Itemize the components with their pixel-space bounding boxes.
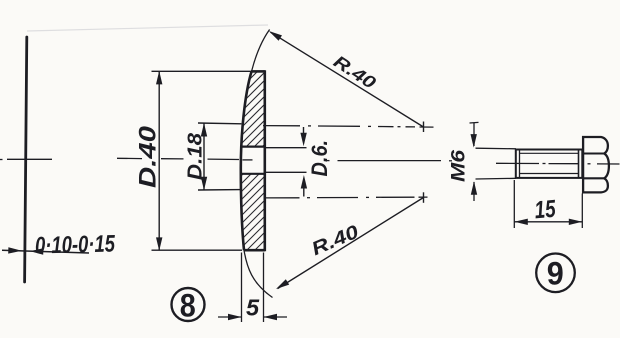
dimension 5: right tail: [264, 316, 288, 318]
bolt part 9: extension line top (M6): [476, 147, 517, 150]
dimension M6: arrow bottom: [471, 181, 477, 195]
part number 9 balloon: [536, 253, 575, 292]
dimension 5: extension line right: [263, 253, 265, 323]
tick at top of M6 stem: [470, 121, 479, 124]
part number 8 balloon: [172, 288, 205, 321]
lower auxiliary centerline: [266, 196, 428, 199]
svg-text:D.6.: D.6.: [307, 140, 332, 177]
R.40 lower arrowhead: [276, 279, 289, 289]
svg-text:9: 9: [547, 255, 564, 291]
dimension D.6: leader line top: [265, 147, 307, 149]
dimension 5: arrow right: [264, 314, 278, 320]
dimension D.18: extension line bottom: [198, 189, 241, 191]
disc part 8: upper hatched section: [241, 72, 265, 147]
hole top edge: [241, 146, 265, 148]
bolt centerline: [496, 162, 620, 165]
dimension D.18: extension line top: [198, 122, 241, 125]
R.40 lower radius line: [278, 198, 424, 289]
faint construction line top: [27, 25, 268, 31]
R.40 upper arrowhead: [269, 31, 282, 41]
dimension 15: extension line right: [581, 194, 583, 229]
thread root line top: [520, 152, 579, 154]
thread end line at head: [578, 150, 580, 178]
dimension D.40: arrow bottom: [156, 237, 162, 251]
bolt hex head outline: [583, 137, 609, 192]
svg-text:15: 15: [533, 196, 557, 225]
svg-text:0·10-0·15: 0·10-0·15: [35, 230, 116, 259]
dimension M6: stem bottom: [473, 182, 475, 201]
dimension D.6: leader line bottom: [265, 171, 307, 173]
disc outline: top edge: [251, 70, 265, 73]
dimension 15: arrow right: [569, 219, 583, 225]
dimension 15: dimension line: [514, 221, 582, 223]
svg-text:D.40: D.40: [135, 126, 162, 188]
dimension M6: stem top: [473, 123, 475, 147]
svg-text:D.18: D.18: [184, 132, 207, 180]
dimension 15: extension line left: [513, 180, 515, 228]
arrow right of 0.10-0.15: [30, 248, 44, 254]
main centerline (middle segments): [161, 159, 452, 161]
dimension D.6: arrow top: [300, 133, 306, 147]
thread root line bottom: [520, 173, 579, 175]
dimension D.6: stem top: [303, 127, 305, 136]
dimension D.40: extension line bottom: [152, 249, 243, 251]
disc part 8: lower hatched section: [241, 174, 265, 251]
thread start second line: [519, 150, 521, 178]
center cross of lower R40: [423, 192, 425, 203]
svg-text:5: 5: [246, 295, 260, 321]
dimension 15: arrow left: [514, 219, 528, 225]
R.40 upper radius line: [271, 32, 424, 127]
svg-text:8: 8: [180, 288, 196, 324]
dimension 5: extension line left: [241, 253, 243, 323]
arc extension above disc: [252, 30, 270, 72]
hex facet line upper: [583, 152, 604, 154]
upper auxiliary centerline: [263, 126, 434, 128]
disc outline: curved left face R40: [241, 72, 252, 251]
arc extension below disc: [244, 250, 273, 297]
hex facet line lower: [583, 177, 604, 179]
dimension D.40: dimension line: [158, 71, 160, 250]
bolt shaft outline: [516, 150, 583, 178]
dimension D.40: extension line top: [152, 70, 252, 72]
arrow left of 0.10-0.15: [8, 247, 22, 253]
dimension D.6: stem bottom: [303, 186, 305, 197]
dimension D.18: arrow top: [201, 123, 207, 137]
bolt part 9: extension line bottom (M6): [476, 177, 517, 180]
dimension M6: arrow top: [471, 134, 477, 148]
dimension D.18: dimension line: [203, 123, 205, 190]
dimension D.18: arrow bottom: [201, 177, 207, 191]
dimension 0.10-0.15 leader line: [2, 250, 89, 253]
dimension 5: arrow left: [228, 314, 242, 320]
hole bottom edge: [241, 173, 265, 175]
gauge plate edge view (left part): [25, 37, 27, 282]
dimension 5: left tail: [218, 316, 242, 318]
centerline of plate: [0, 158, 142, 159]
dimension D.6: arrow bottom: [301, 175, 307, 189]
disc outline: right edge: [263, 70, 266, 251]
dimension D.40: arrow top: [156, 71, 162, 85]
disc outline: bottom edge: [244, 249, 265, 252]
svg-text:M6: M6: [447, 150, 469, 182]
center cross of upper R40: [423, 122, 425, 133]
